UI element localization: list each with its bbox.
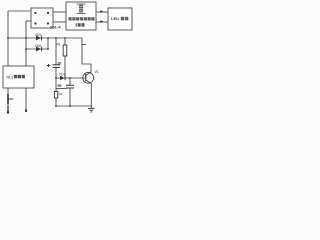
capacitor C1 plates (53, 64, 61, 66)
transistor V1 (83, 72, 94, 83)
plug wire right (25, 88, 27, 109)
LED string box (108, 8, 132, 30)
wire box to LED bottom (96, 21, 108, 23)
arrow on top LED wire (100, 10, 103, 13)
plug wire left (7, 88, 9, 112)
resistor R1 wire top (64, 38, 66, 45)
diode VD5 (36, 36, 41, 41)
svg-text:LED: LED (111, 16, 119, 21)
ground symbol (88, 106, 95, 112)
svg-text:R1: R1 (57, 43, 61, 47)
svg-text:VD7: VD7 (59, 73, 65, 77)
wire y88 (56, 88, 67, 90)
svg-text:VD5: VD5 (35, 33, 41, 37)
bridge dot 3 (34, 22, 36, 24)
resistor R1 wire bottom (64, 56, 66, 78)
svg-text:VD1~4: VD1~4 (50, 26, 61, 30)
wire bridge to box bottom (53, 21, 66, 23)
box text line 2 (CJK smudge) (76, 23, 85, 26)
bridge dot 2 (47, 12, 49, 14)
emitter wire (90, 84, 92, 106)
wire AC2 from bridge (26, 20, 31, 22)
ground rail (56, 105, 91, 107)
node dots base line (55, 77, 57, 79)
label C2 smudge (58, 84, 62, 87)
collector wire from line A (82, 38, 91, 73)
arrow on bottom LED wire (100, 20, 103, 23)
C1 plus sign (47, 64, 50, 67)
junction dots on line A and B (7, 37, 9, 39)
capacitor C2 bottom wire (69, 88, 71, 106)
svg-text:VD6: VD6 (35, 44, 41, 48)
gate tick (82, 44, 86, 46)
svg-text:RL1: RL1 (7, 75, 14, 79)
wire line A (8, 37, 82, 39)
bridge dot 1 (34, 12, 36, 14)
plug prong left (7, 109, 9, 113)
wire riser A-B (47, 38, 49, 49)
wire AC1 vertical (7, 11, 9, 66)
bridge dot 4 (47, 22, 49, 24)
wire line B (26, 48, 48, 50)
wire box to LED top (96, 11, 108, 13)
capacitor C2 plates (66, 84, 74, 86)
capacitor C1 branch wire (55, 38, 57, 65)
resistor R1 (63, 45, 67, 56)
thyristor dimmer circuit box U1 (66, 2, 96, 30)
diode VD7 (60, 76, 65, 80)
wire AC2 vertical (25, 21, 27, 66)
wire bridge to box top (53, 11, 66, 13)
svg-text:R2: R2 (59, 92, 63, 96)
switch S (7, 94, 9, 104)
C1 lower wire (55, 67, 57, 91)
R2 lower wire (55, 98, 57, 106)
plug prong right (25, 109, 27, 112)
resistor R2 (54, 92, 57, 99)
diode VD6 (36, 47, 41, 52)
bridge rectifier VD1-VD4 box (31, 8, 53, 28)
box text line 1 (CJK smudge) (69, 17, 95, 20)
base line (56, 77, 84, 79)
svg-text:V1: V1 (95, 70, 99, 74)
transformer T1 symbol (77, 4, 86, 14)
capacitor C2 top wire (69, 78, 71, 85)
wire AC1 top (8, 10, 31, 12)
photocell RL1 box (3, 66, 34, 88)
